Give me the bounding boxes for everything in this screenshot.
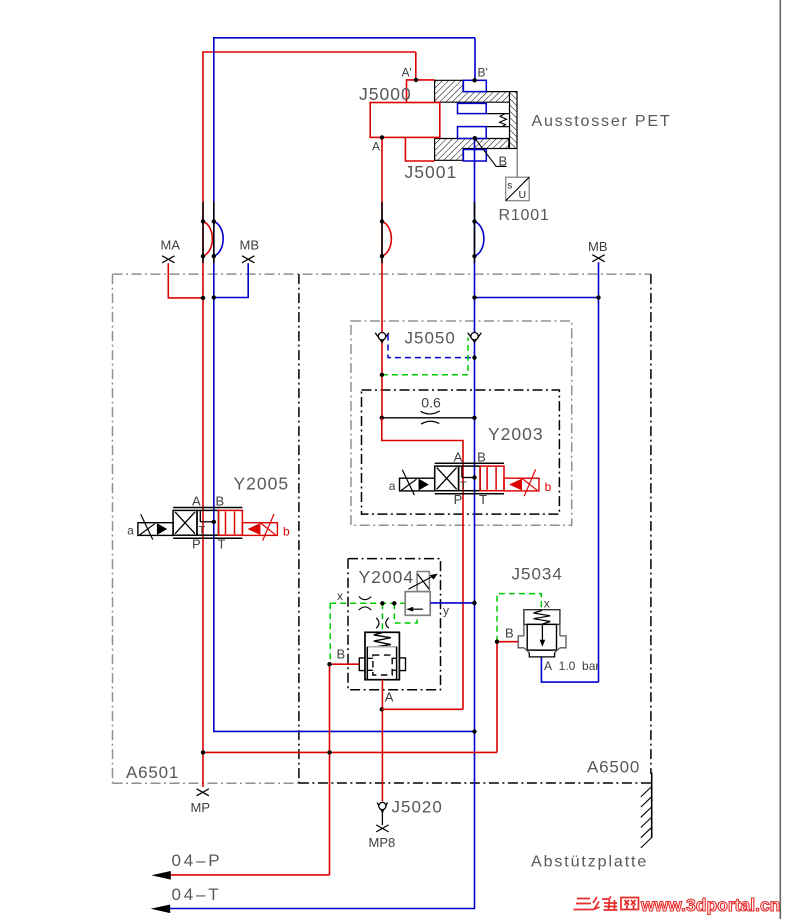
svg-text:A6500: A6500 bbox=[587, 758, 640, 777]
svg-text:J5020: J5020 bbox=[392, 798, 443, 817]
svg-text:J5000: J5000 bbox=[359, 84, 412, 104]
svg-text:J5034: J5034 bbox=[512, 565, 563, 584]
svg-text:A: A bbox=[372, 140, 380, 154]
svg-text:b: b bbox=[545, 480, 552, 494]
svg-text:www.3dportal.cn: www.3dportal.cn bbox=[640, 895, 780, 915]
svg-text:T: T bbox=[479, 492, 487, 507]
svg-text:A: A bbox=[454, 449, 463, 464]
svg-text:Ausstosser PET: Ausstosser PET bbox=[532, 113, 672, 130]
svg-text:P: P bbox=[192, 537, 201, 552]
svg-text:Abstützplatte: Abstützplatte bbox=[531, 854, 648, 871]
svg-text:B: B bbox=[477, 449, 486, 464]
svg-text:A 1.0 bar: A 1.0 bar bbox=[544, 659, 599, 673]
svg-text:MP: MP bbox=[191, 800, 211, 815]
svg-text:U: U bbox=[519, 189, 527, 201]
svg-text:MP8: MP8 bbox=[369, 835, 396, 850]
svg-text:T: T bbox=[460, 480, 467, 492]
svg-text:A6501: A6501 bbox=[126, 763, 179, 782]
svg-text:J5050: J5050 bbox=[405, 329, 456, 348]
svg-text:04–P: 04–P bbox=[172, 851, 223, 870]
svg-text:a: a bbox=[389, 479, 396, 493]
svg-text:04–T: 04–T bbox=[172, 885, 222, 904]
svg-text:T: T bbox=[218, 537, 226, 552]
svg-text:A: A bbox=[385, 690, 394, 705]
svg-text:P: P bbox=[454, 492, 463, 507]
svg-text:x: x bbox=[544, 597, 550, 611]
svg-text:A': A' bbox=[402, 66, 412, 80]
svg-text:B: B bbox=[337, 647, 346, 662]
svg-text:Y2005: Y2005 bbox=[234, 474, 290, 494]
svg-text:MB: MB bbox=[240, 238, 260, 253]
svg-text:B: B bbox=[505, 626, 514, 641]
svg-text:a: a bbox=[127, 523, 134, 537]
svg-text:T: T bbox=[199, 525, 206, 537]
svg-text:0.6: 0.6 bbox=[421, 394, 441, 410]
svg-text:B': B' bbox=[478, 66, 488, 80]
svg-text:B: B bbox=[499, 154, 508, 169]
svg-text:B: B bbox=[216, 494, 225, 509]
svg-text:Y2004: Y2004 bbox=[359, 567, 415, 587]
svg-text:Y2003: Y2003 bbox=[488, 424, 544, 444]
svg-text:s: s bbox=[507, 181, 512, 192]
svg-text:x: x bbox=[337, 589, 343, 603]
svg-text:R1001: R1001 bbox=[499, 207, 550, 224]
svg-text:MB: MB bbox=[588, 239, 608, 254]
svg-text:MA: MA bbox=[161, 238, 181, 253]
svg-text:b: b bbox=[283, 525, 290, 539]
svg-text:y: y bbox=[443, 604, 449, 618]
svg-text:J5001: J5001 bbox=[405, 162, 458, 182]
svg-text:A: A bbox=[192, 494, 201, 509]
